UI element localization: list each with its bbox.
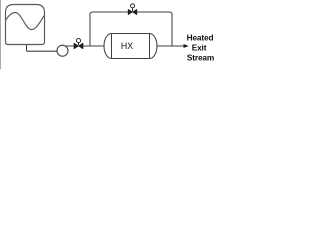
svg-text:Exit: Exit bbox=[192, 43, 207, 53]
pump P1 bbox=[57, 45, 68, 56]
valve V1 actuator circle bbox=[76, 39, 80, 43]
HX right tubesheet bbox=[149, 34, 151, 59]
valve V2 actuator circle bbox=[131, 4, 135, 8]
heat exchanger HX shell bbox=[104, 34, 157, 59]
left image edge line bbox=[0, 0, 2, 69]
valve V1 actuator stem bbox=[78, 42, 80, 45]
tank T1 bbox=[6, 5, 45, 45]
svg-text:Stream: Stream bbox=[187, 53, 214, 63]
HX left tubesheet bbox=[111, 34, 113, 59]
wire: tank outlet down and right to pump bbox=[27, 45, 61, 52]
background bbox=[0, 0, 230, 69]
valve V2 actuator stem bbox=[132, 9, 134, 12]
svg-text:HX: HX bbox=[121, 41, 133, 51]
svg-text:Heated: Heated bbox=[187, 33, 214, 43]
liquid level wave in tank bbox=[6, 13, 45, 30]
wire: bypass line up-over-down bbox=[90, 12, 172, 46]
valve V2 body (bypass) bbox=[128, 9, 137, 14]
wire: pump discharge line to arrow at y=46 bbox=[60, 45, 184, 47]
arrowhead on outlet bbox=[184, 44, 189, 48]
valve V1 body bbox=[74, 43, 83, 49]
